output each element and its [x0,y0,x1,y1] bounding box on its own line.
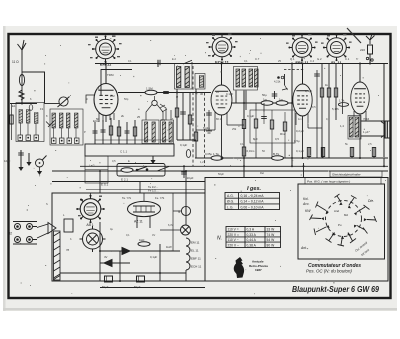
svg-text:EBF 11: EBF 11 [191,257,201,261]
mains switch contacts [366,57,373,61]
long vertical wire x244 [243,91,245,178]
diode arrow 1 [100,248,180,255]
resistor rd1 [254,110,257,143]
resistor row right r2 [327,64,330,159]
trimmer pad 1a [18,135,23,141]
IF transformer 2 box [234,67,258,91]
wire V2 link [192,92,211,94]
tube V2 EBF11 envelope [211,85,232,115]
tube V4 pin wires [354,111,366,121]
svg-text:1 µF: 1 µF [363,130,369,134]
svg-text:50µF: 50µF [102,285,109,289]
ground stub under gang [150,156,155,164]
small box near coil [64,219,73,232]
svg-text:1m: 1m [263,98,268,102]
svg-text:8µF: 8µF [253,137,258,141]
trimmer t2 [101,120,106,144]
wire lamp link [185,216,187,225]
resistor rd2 [270,110,273,143]
switch contacts radial [310,194,377,246]
resistor r-c [133,120,136,144]
diode arrow 2 [100,260,130,267]
wire TA to box [33,227,37,240]
svg-text:4µ: 4µ [110,227,113,231]
phono jack circle [36,156,47,176]
filter cap 50uF b [134,276,145,289]
resistor row right r3 [334,64,337,121]
oscillator coil box B [161,120,174,144]
coil L5 [60,113,63,128]
coil L2 [27,110,30,124]
svg-text:4V: 4V [104,255,108,259]
svg-text:220: 220 [360,48,365,52]
mains plug symbol [366,34,375,44]
svg-text:0,1µF: 0,1µF [180,143,187,147]
svg-text:110 V ~: 110 V ~ [228,238,239,242]
svg-text:0,33 A: 0,33 A [247,233,257,237]
wire y189 partial [86,189,205,191]
switch arrow left cluster [46,121,54,127]
wire gang to coil [45,103,60,105]
label box 2 above switch [305,178,381,185]
vertical wire x342 [342,64,344,115]
IFT1 coil a [177,67,181,88]
svg-text:2,5: 2,5 [368,142,372,146]
svg-text:0,1µF: 0,1µF [247,114,254,118]
wire AZ11 to box top [143,193,145,201]
cap on lower bus c1 [307,147,310,158]
fuse [368,45,373,54]
svg-text:Ant.: Ant. [300,246,307,250]
extra tiny value labels [30,57,372,241]
svg-text:G.2: G.2 [317,57,322,61]
coil L3 [35,113,38,124]
coil interconnect wires box1 [21,123,37,135]
vertical connector chassis to powerbox a [99,171,101,193]
svg-text:0,5: 0,5 [275,137,279,141]
svg-text:Acc.: Acc. [302,202,310,206]
resistor 1k horizontal [138,238,150,246]
svg-text:0,5µ: 0,5µ [294,139,300,143]
wire lamp S left [173,210,181,212]
vertical wire V2 grid column b [235,91,237,104]
svg-text:Fe. Y/S: Fe. Y/S [155,196,164,200]
resistor 1m b [276,98,288,106]
wire heater chain bottom [185,270,187,281]
switch arrowheads [321,202,367,239]
wire AVC grid bus [118,92,211,94]
svg-text:C.1: C.1 [345,57,350,61]
wire box bottom bus [60,272,186,274]
switch dashed circle [326,201,362,237]
svg-text:Md: Md [344,213,348,217]
tube socket AB1 (top view) [76,195,105,227]
cap cd1 [261,112,267,124]
tube EL11 socket (top view) [323,34,350,65]
IFT2 coil b [242,69,246,87]
svg-text:A.G.: A.G. [227,194,234,198]
svg-text:0,06 – 0,10 mA: 0,06 – 0,10 mA [241,205,265,209]
svg-text:30: 30 [200,92,204,96]
tube V4 EL11 envelope [351,82,369,114]
svg-text:202: 202 [110,94,115,98]
heater chain coil 2 [186,246,199,254]
wire antenna tap right [22,72,45,104]
resistor 1Tk horizontal [338,99,348,107]
svg-text:R12: R12 [280,132,286,136]
svg-text:4,21k: 4,21k [274,80,281,84]
speckle noise [28,38,386,286]
trimmer t3 [125,122,130,144]
elko cap oval [186,150,190,158]
svg-text:La/1: La/1 [89,164,95,168]
tube V1 ECH11 envelope [93,84,118,123]
svg-text:220 V ~: 220 V ~ [228,243,240,247]
wire V3 bottom [302,116,304,158]
power box outline [52,193,205,281]
svg-text:1m: 1m [279,98,284,102]
paper bottom edge shade [3,308,397,311]
vertical wire IFT1 a [175,93,178,141]
svg-text:82: 82 [9,232,13,236]
IFT2 coil c [249,69,253,87]
wire x173 in powerbox [172,193,174,251]
svg-text:33 W: 33 W [267,228,276,232]
svg-text:Fe 1/2…: Fe 1/2… [148,189,159,193]
outer schematic frame border [9,34,391,298]
wire lower bus [195,157,388,159]
osc switch arrows [160,105,167,112]
wire lamp X left [160,229,181,231]
resistor row right r1 [320,64,323,159]
club stamp logo [234,257,244,278]
svg-text:E.S.1: E.S.1 [101,183,109,187]
switch arrow on chassis bus [157,167,169,172]
vertical wire x100 in box [99,222,101,281]
cap on lower bus c2 [321,147,324,158]
svg-text:E.2: E.2 [172,57,176,61]
coil L6 [67,113,70,128]
vertical wire V2 grid column a [245,91,247,111]
svg-text:0,5: 0,5 [112,159,116,163]
tuning capacitor frame C1.1 [85,144,174,156]
svg-text:0,2 µF: 0,2 µF [296,129,304,133]
svg-text:1987: 1987 [255,268,262,272]
svg-text:25k: 25k [232,127,237,131]
svg-text:80 W: 80 W [267,243,276,247]
paper left edge shade [3,26,6,311]
wire AZ11 pins [137,216,150,228]
svg-text:78: 78 [66,248,70,252]
switch inner labels [334,209,348,227]
wire B+ top bus [95,63,388,65]
dial lamp S [178,206,191,215]
switch above IFT1 [183,60,192,64]
wire AF line y181 [52,181,205,183]
IFT2 coil d [255,69,259,87]
heater chain coil 4 [186,262,202,270]
cap to ground C4 [18,150,24,158]
svg-text:AZ 11: AZ 11 [134,220,143,224]
tuning gang section C3 [58,97,70,108]
svg-text:0,3 A: 0,3 A [247,228,255,232]
svg-text:E1: E1 [12,104,16,108]
svg-text:P: P [84,130,86,134]
svg-text:0,38 A: 0,38 A [247,243,257,247]
svg-text:1,5M: 1,5M [146,87,153,91]
vertical wire x317 [314,70,320,158]
svg-text:KW: KW [305,209,311,213]
wire bottom outside bus [100,287,205,289]
gang dashed link 1 [192,66,194,166]
osc roof wires [146,96,171,120]
wire transformer to speaker [361,121,385,136]
svg-text:74 W: 74 W [267,233,276,237]
vertical connector chassis to powerbox c [139,182,141,194]
svg-text:1,2: 1,2 [200,160,204,164]
long vertical wire x384 [383,64,385,167]
svg-text:EL 11: EL 11 [331,60,342,65]
svg-text:And: And [334,209,339,213]
svg-text:0,05µ: 0,05µ [205,152,212,156]
IF transformer 1 box [175,64,193,90]
svg-text:Tr: Tr [356,57,358,61]
component row under V1 : trimmer t1 [93,122,98,144]
IFT2 coil a [236,69,240,87]
svg-text:1kΩ: 1kΩ [139,238,145,242]
long vertical wire x292 [291,64,293,167]
resistor in loop [121,168,133,172]
svg-text:Tigtte: Tigtte [203,126,210,130]
wire fuse to bus [369,54,371,64]
resistor r-b [117,120,120,144]
filter cap 50uF a [102,276,113,289]
tube V2 pin wires [196,112,244,130]
svg-text:0,5: 0,5 [312,105,316,109]
svg-text:Kol.: Kol. [303,197,309,201]
rectifier tube AZ11 (horizontal) [128,201,161,223]
wire V3 top [302,64,304,85]
cap on top bus [158,60,160,67]
scan artifact diagonal at top right [347,28,361,43]
cap 10uF at x184 [181,166,193,180]
vertical wire IFT1 c [188,93,191,141]
dial loop box [117,164,165,177]
svg-text:Gleichlaufgleichhalter: Gleichlaufgleichhalter [332,173,362,177]
dial lamp X [181,225,191,235]
tube V3 pin wires [296,113,322,128]
coil L1 [19,110,22,124]
svg-text:Ta. Y/S: Ta. Y/S [122,196,131,200]
trimmer pad 2c [67,138,72,144]
antenna series coil [19,75,24,86]
detector sub-box [250,110,295,143]
coil L4 [52,113,55,128]
svg-text:5,17k: 5,17k [332,107,339,111]
gang dashed link 2 [204,93,206,167]
detector box pin wires [256,103,285,158]
svg-text:0,1 µF: 0,1 µF [296,149,304,153]
trimmer pad 2b [60,138,65,144]
svg-text:25: 25 [137,115,141,119]
svg-text:0,14 – 0,12 mA: 0,14 – 0,12 mA [241,200,265,204]
tube ECH11 socket (top view) [208,33,235,64]
switch in loop [136,167,148,171]
svg-text:4V: 4V [152,233,155,237]
grid leak cap V2 [203,110,212,133]
svg-text:EM 11: EM 11 [191,241,200,245]
wire V1 top to bus [105,64,107,85]
output transformer coil [348,116,361,140]
svg-text:N.: N. [217,236,222,242]
coupling oval [29,105,33,111]
trimmer pad 2a [52,138,57,144]
osc coil B1 [163,122,166,142]
ground arrow 1 [18,158,23,171]
svg-text:Q.1: Q.1 [290,57,295,61]
vertical wire IFT1 b [180,93,186,141]
svg-text:B.Tk: B.Tk [273,152,280,156]
cap above mid bus [272,91,278,99]
antenna symbol [18,40,27,60]
svg-text:0,1: 0,1 [326,117,330,121]
aerial coil box 2 [50,109,83,145]
wire antenna down [21,60,23,104]
svg-text:C.4: C.4 [310,59,315,63]
trimmer pad 1c [34,135,39,141]
resistor rd3 [280,112,287,143]
svg-text:1kW: 1kW [166,245,172,249]
svg-text:Blaupunkt-Super 6 GW 69: Blaupunkt-Super 6 GW 69 [292,284,379,294]
vertical wire x120 in box [119,251,121,281]
vertical wire x160 in box [159,244,161,281]
svg-text:0,44 A: 0,44 A [247,238,257,242]
heater chain coil 1 [186,238,200,246]
cap on lower bus c4 [372,147,375,158]
chassis sub-box near V1 [101,70,132,96]
heater dropper coil [54,231,61,280]
svg-text:0,1: 0,1 [126,233,130,237]
tube V1 pin wires [99,113,114,122]
svg-text:0,16 – 0,24 mA: 0,16 – 0,24 mA [241,194,265,198]
dashed AVC line [284,69,304,71]
resistor 1m a [261,98,273,106]
svg-text:11 Ω: 11 Ω [12,60,19,64]
svg-text:Rel: Rel [260,171,264,175]
wire V2 top [221,64,223,86]
cap on lower bus c3 [350,147,353,158]
svg-text:10: 10 [216,90,220,94]
power table frame [226,227,281,248]
wire V2 bottom [221,115,223,158]
IFT1 coil b [185,67,189,88]
oscillator coil box A [142,120,159,144]
resistor squiggle on antenna lead [19,90,24,100]
tube EM11 (magic eye, top view) [92,35,119,66]
svg-text:110 V =: 110 V = [228,228,239,232]
dial lamp box La1 [85,156,108,183]
wire EM11 stub [105,59,107,64]
svg-text:I ges.: I ges. [247,186,262,192]
svg-text:F1: F1 [40,107,44,111]
vertical wire IFT1 d [194,89,197,158]
svg-text:1 Ta: 1 Ta [213,152,219,156]
cap on grid bus [163,92,169,94]
Iges table frame [225,193,280,210]
svg-text:50µF: 50µF [218,172,224,176]
wire chassis bus [80,165,388,167]
label box 1 above switch [330,171,382,177]
osc trimmer circle [152,100,157,105]
svg-text:0,1µF: 0,1µF [150,255,157,259]
svg-text:50p: 50p [124,97,129,101]
svg-text:ECH 11: ECH 11 [191,265,202,269]
svg-text:E: E [128,159,130,163]
small IF coil [200,76,204,88]
svg-text:0,1: 0,1 [128,59,132,63]
speaker [381,121,390,138]
osc coil A2 [152,122,155,142]
wire IFT1 down [176,89,178,93]
resistor 1,5M on grid bus [145,87,157,95]
svg-text:C 1.1: C 1.1 [120,150,128,154]
wire V4 bottom [359,114,361,158]
wire coilbox1 top link [10,103,37,105]
svg-text:6,3V: 6,3V [168,223,174,227]
svg-text:12pF: 12pF [4,159,11,163]
svg-text:Ø.G.: Ø.G. [227,200,234,204]
TA jack plate [13,222,37,245]
wire lamp top [185,193,187,206]
svg-text:M: M [176,95,178,99]
resistor on lower bus b [272,152,284,160]
svg-text:Pos. W.G. ( van hoge uitgezien: Pos. W.G. ( van hoge uitgezien ) [307,179,350,183]
svg-text:7016: 7016 [363,117,370,121]
svg-text:1m: 1m [298,117,302,121]
pin label specks around tube sockets [78,34,352,217]
svg-text:50µ: 50µ [262,93,267,97]
tube V3 envelope [293,84,312,116]
svg-text:0,1: 0,1 [244,59,248,63]
svg-text:0,1µF: 0,1µF [226,92,233,96]
svg-text:50µF: 50µF [134,285,141,289]
coil L7 [75,113,78,128]
trimmer pad 1b [26,135,31,141]
wire bus link 177-196 [177,139,196,141]
svg-text:TDM: TDM [107,73,114,77]
svg-text:1 Tk: 1 Tk [339,99,345,103]
svg-text:50: 50 [96,117,100,121]
resistor r-a [109,118,112,144]
trimmer pad 2d [75,138,80,144]
svg-text:Die.: Die. [368,199,374,203]
svg-text:0,01m: 0,01m [247,149,255,153]
heater chain coil 3 [186,254,201,262]
svg-text:1,4: 1,4 [340,124,344,128]
band switch contact cluster [274,74,288,90]
switch diagram box [298,184,385,259]
wire V1 cathode down [105,115,107,122]
resistor on x244 upper [242,120,245,129]
small coil box [195,74,205,90]
scattered value labels [4,57,370,259]
junction into table box [303,163,305,178]
svg-text:L.G.: L.G. [227,205,233,209]
plug arrow into box [37,223,56,239]
resistor on lower bus a [211,152,223,160]
svg-text:0,1µF: 0,1µF [305,89,312,93]
wire component row bottom link [95,139,168,141]
